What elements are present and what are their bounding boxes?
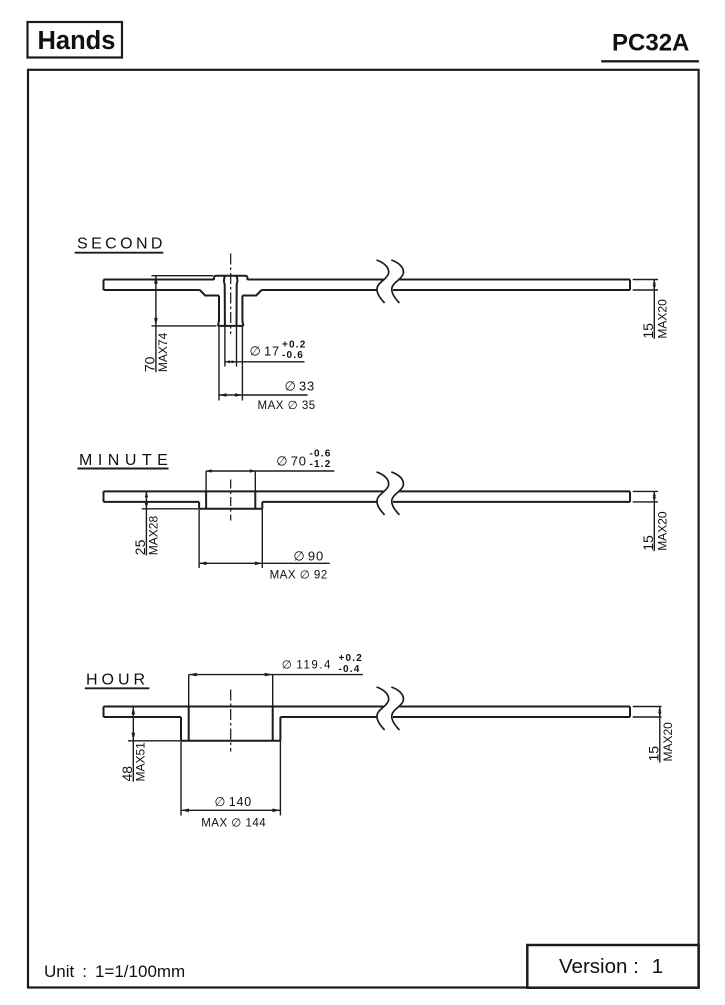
hour blade bottom line (left of cup) bbox=[104, 716, 182, 718]
hour right ext bottom bbox=[633, 716, 662, 718]
minute cup inner left wall bbox=[205, 491, 207, 508]
minute dia90 extension lines bbox=[198, 509, 200, 568]
minute right thickness arrows bbox=[653, 491, 656, 496]
svg-text:MAX74: MAX74 bbox=[156, 332, 170, 372]
minute break symbol curve 2 bbox=[391, 472, 403, 515]
minute dia70 arrows bbox=[206, 469, 212, 472]
second tube outer extension lines bbox=[218, 326, 220, 401]
svg-text:MINUTE: MINUTE bbox=[79, 452, 173, 469]
second right thickness dim line bbox=[653, 280, 655, 339]
minute blade bottom line (cup to break) bbox=[262, 501, 377, 503]
minute cup left wall bbox=[198, 502, 200, 509]
svg-text:∅33: ∅33 bbox=[285, 378, 316, 393]
hour dia119.4 dim line with leader bbox=[189, 674, 363, 676]
hour cup-bottom extension line bbox=[128, 740, 180, 742]
hour blade bottom line (after break) bbox=[393, 716, 630, 718]
hour dia140 arrows bbox=[181, 809, 189, 813]
hour centerline bbox=[230, 690, 232, 752]
svg-text:+0.2: +0.2 bbox=[282, 339, 307, 350]
minute blade top line (after break) bbox=[399, 490, 630, 492]
second break symbol curve 1 bbox=[377, 260, 389, 303]
svg-text:∅140: ∅140 bbox=[215, 795, 253, 809]
svg-text:Unit:1=1/100mm: Unit:1=1/100mm bbox=[44, 962, 185, 981]
minute blade top line (to break) bbox=[104, 490, 384, 492]
minute cup-bottom extension line bbox=[142, 508, 198, 510]
second break symbol curve 2 bbox=[391, 260, 403, 303]
second hole extension lines bbox=[224, 326, 226, 367]
svg-text:HOUR: HOUR bbox=[86, 672, 149, 689]
second boss-top extension line bbox=[152, 275, 214, 277]
title block: Hands box bbox=[28, 22, 123, 58]
label MINUTE underline bbox=[78, 468, 169, 470]
second dia17 dim line with leader bbox=[225, 361, 305, 363]
svg-text:MAX28: MAX28 bbox=[146, 516, 160, 556]
minute depth arrows bbox=[145, 491, 148, 497]
hour cup right wall bbox=[279, 717, 281, 741]
svg-text:PC32A: PC32A bbox=[612, 29, 689, 56]
second blade left end cap bbox=[103, 280, 105, 291]
minute blade bottom line (left of cup) bbox=[104, 501, 200, 503]
second tube-bottom extension line bbox=[152, 325, 217, 327]
svg-text:SECOND: SECOND bbox=[77, 236, 166, 253]
second right ext bottom bbox=[633, 289, 658, 291]
svg-text:MAX ∅ 144: MAX ∅ 144 bbox=[201, 817, 266, 829]
hour blade bottom line (cup to break) bbox=[280, 716, 377, 718]
svg-text:MAX20: MAX20 bbox=[661, 722, 675, 762]
minute dia70 dim line with leader bbox=[206, 470, 334, 472]
hour dia119.4 extension lines bbox=[188, 675, 190, 707]
minute cup right wall bbox=[261, 502, 263, 509]
second blade bottom line (left of collar) bbox=[104, 289, 200, 291]
hour cup bottom bbox=[181, 740, 280, 742]
svg-text:Hands: Hands bbox=[38, 27, 116, 55]
minute depth dim line 25 bbox=[145, 491, 147, 555]
minute blade right end cap bbox=[629, 491, 631, 502]
second blade right end cap bbox=[629, 280, 631, 291]
second dim arrows 70 bbox=[154, 276, 158, 284]
hour dia119.4 arrows bbox=[189, 673, 197, 677]
svg-text:MAX ∅ 35: MAX ∅ 35 bbox=[258, 400, 316, 412]
minute break symbol curve 1 bbox=[377, 472, 389, 515]
minute right thickness dim line bbox=[653, 491, 655, 551]
svg-text:∅17: ∅17 bbox=[250, 344, 281, 359]
svg-text:15: 15 bbox=[645, 746, 661, 762]
second height dim line 70 bbox=[155, 276, 157, 373]
svg-text:MAX51: MAX51 bbox=[133, 742, 147, 782]
label HOUR underline bbox=[85, 687, 150, 689]
svg-text:MAX20: MAX20 bbox=[655, 511, 669, 551]
svg-text:MAX ∅ 92: MAX ∅ 92 bbox=[270, 570, 328, 582]
hour blade left end cap bbox=[103, 707, 105, 718]
hour right thickness arrows bbox=[658, 707, 661, 712]
svg-text:MAX20: MAX20 bbox=[655, 299, 669, 339]
minute dia90 dim line with leader bbox=[199, 562, 330, 564]
svg-text:∅70: ∅70 bbox=[276, 453, 307, 468]
svg-text:15: 15 bbox=[640, 323, 656, 339]
second hub tube left wall bbox=[218, 296, 219, 326]
svg-text:-0.4: -0.4 bbox=[339, 664, 361, 675]
second blade top line (left of hub) bbox=[104, 279, 214, 281]
hour depth dim line 48 bbox=[132, 707, 134, 782]
svg-text:∅90: ∅90 bbox=[293, 548, 324, 563]
second dim arrows dia33 bbox=[219, 393, 227, 397]
hour dia140 dim line bbox=[181, 809, 280, 811]
second hub tube right wall bbox=[242, 296, 243, 326]
svg-text:-1.2: -1.2 bbox=[310, 459, 332, 470]
second blade top line (after break) bbox=[399, 279, 630, 281]
second dim arrows dia17 bbox=[225, 360, 230, 363]
second hub hole left wall bbox=[223, 276, 226, 326]
minute dia90 arrows bbox=[199, 562, 207, 566]
second right ext top bbox=[633, 279, 658, 281]
minute cup bottom bbox=[199, 508, 262, 510]
hour cup left wall bbox=[180, 717, 182, 741]
minute dia70 extension lines bbox=[205, 471, 207, 491]
second right thickness arrows bbox=[653, 280, 656, 285]
minute right ext bottom bbox=[633, 501, 658, 503]
minute blade bottom line (after break) bbox=[393, 501, 630, 503]
second hub boss bbox=[214, 276, 248, 280]
second blade top line (hub to break) bbox=[248, 279, 384, 281]
hour blade top line (after break) bbox=[399, 706, 630, 708]
part number underline bbox=[601, 60, 699, 62]
minute right ext top bbox=[633, 490, 658, 492]
second blade bottom line (collar to break) bbox=[262, 289, 378, 291]
hour break symbol curve 2 bbox=[391, 687, 403, 730]
second blade bottom line (after break) bbox=[393, 289, 630, 291]
hour depth arrows bbox=[132, 707, 136, 715]
second hub collar right chamfer bbox=[242, 290, 261, 296]
second hub tube bottom rim bbox=[218, 325, 244, 327]
second centerline bbox=[230, 254, 232, 335]
hour blade top line (to break) bbox=[104, 706, 384, 708]
hour right thickness dim line bbox=[659, 707, 661, 763]
minute cup inner right wall bbox=[254, 491, 256, 508]
hour right ext top bbox=[633, 706, 662, 708]
svg-text:∅119.4: ∅119.4 bbox=[282, 659, 332, 671]
second hub hole right wall bbox=[236, 276, 239, 326]
svg-text:+0.2: +0.2 bbox=[339, 653, 364, 664]
second hub collar left chamfer bbox=[200, 290, 219, 296]
minute blade left end cap bbox=[103, 491, 105, 502]
hour break symbol curve 1 bbox=[377, 687, 389, 730]
label SECOND underline bbox=[75, 252, 164, 254]
version box bbox=[527, 945, 698, 988]
hour cup inner right wall bbox=[272, 707, 274, 741]
hour cup inner left wall bbox=[188, 707, 190, 741]
svg-text:-0.6: -0.6 bbox=[310, 448, 332, 459]
minute centerline bbox=[230, 480, 232, 521]
svg-text:-0.6: -0.6 bbox=[282, 350, 304, 361]
second dia33 dim line with leader bbox=[219, 394, 308, 396]
hour blade right end cap bbox=[629, 707, 631, 718]
svg-text:15: 15 bbox=[640, 535, 656, 551]
hour dia140 extension lines bbox=[180, 741, 182, 816]
